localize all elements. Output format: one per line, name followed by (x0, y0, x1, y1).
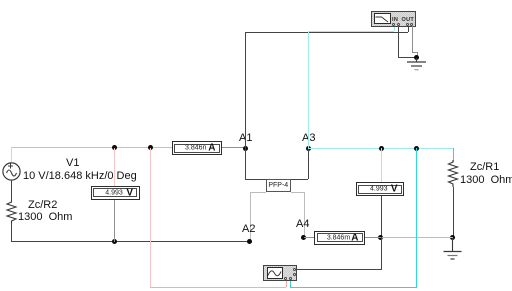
wire: red stub up to FG (286, 281, 287, 287)
label Zc/R2 (28, 199, 57, 211)
wire: cyan down to voltmeter U4 (381, 148, 382, 183)
bode plotter screen (374, 13, 392, 24)
label A2 (242, 223, 255, 235)
label R1 value (460, 174, 512, 186)
junction: R1 ground node (450, 235, 455, 240)
wire: ammeter U1 to node A1 (222, 147, 246, 148)
junction: FG return tap (414, 146, 419, 151)
wire: cyan net A3 to R1 (308, 148, 453, 149)
resistor Zc/R2 (4, 200, 19, 224)
junction: function generator feed tap on top net (148, 145, 153, 150)
wire: top black horizontal to bode plotter OUT (245, 32, 408, 33)
node A1 (243, 146, 248, 151)
FG terminal bottom 2 (289, 277, 292, 280)
voltmeter U2 4.993 V (91, 186, 140, 200)
wire: A1 down to PFP-4 (245, 148, 246, 179)
wire: PFP-4 bottom-left out (250, 192, 266, 193)
terminal IN+ (392, 23, 395, 26)
wire: R1 bottom (453, 187, 454, 238)
label IN OUT (392, 17, 414, 23)
FG terminal bottom 1 (284, 277, 287, 280)
ground GND1 (406, 58, 427, 72)
bode plotter XBP1 (371, 11, 416, 28)
wire: red stub V1 top vertical (11, 147, 12, 162)
node A2 (247, 239, 252, 244)
terminal IN- (397, 23, 400, 26)
wire: down to A4 (304, 192, 305, 238)
terminal OUT- (410, 23, 413, 26)
function generator XFG1 (263, 265, 297, 281)
voltage source V1 (1, 160, 22, 182)
wire: ammeter U3 right (365, 237, 381, 238)
wire: to ground junction (398, 57, 417, 58)
wire: OUT- jog down (417, 52, 418, 58)
ground GND2 (442, 238, 463, 260)
wire: OUT- jog right (412, 52, 418, 53)
wire: voltmeter U4 bottom down (381, 196, 382, 238)
label V1 (66, 157, 79, 169)
junction: ground node (414, 55, 419, 60)
FG screen (267, 267, 284, 279)
label A4 (296, 218, 309, 230)
wire: into PFP-4 left (245, 179, 266, 180)
label A1 (239, 132, 252, 144)
label Zc/R1 (470, 161, 499, 173)
node A3 (306, 146, 311, 151)
wire: down to A2 (250, 192, 251, 242)
junction: voltmeter U2 bottom tap (112, 239, 117, 244)
wire: FG node down (381, 237, 382, 269)
FG sine wave (267, 268, 282, 279)
wire: A1 up (245, 32, 246, 148)
label V1 value (23, 170, 137, 182)
wire: red drop to voltmeter U2 (114, 148, 115, 186)
wire: R2 bottom vertical (11, 223, 12, 242)
node A4 (301, 235, 306, 240)
wire: V1 bottom to resistor R2 (11, 180, 12, 201)
junction: voltmeter U2 tap on top net (112, 145, 117, 150)
wire: FG output horizontal (297, 269, 382, 270)
wire: cyan return bottom horizontal (290, 287, 416, 288)
resistor Zc/R1 (446, 160, 461, 187)
junction: FG output node (378, 235, 383, 240)
wire: stub up to OUT+ terminal (408, 26, 409, 32)
voltmeter U4 4.993 V (356, 182, 405, 196)
wire: A4 to ammeter U3 (304, 237, 315, 238)
FG terminal - (right lower) (293, 273, 296, 276)
wire: cyan down to R1 (453, 148, 454, 162)
label A3 (302, 132, 315, 144)
wire: red net from V1 top, horizontal y=147 (11, 147, 172, 148)
wire: voltmeter U2 bottom to bottom net (114, 200, 115, 242)
wire: stub up to IN+ terminal (394, 26, 395, 31)
wire: cyan horizontal to bode plotter IN (308, 31, 394, 32)
wire: red vertical to function generator (150, 148, 151, 287)
wire: IN- down (398, 26, 399, 58)
wire: A3 up cyan (308, 31, 309, 148)
wire: OUT- down gray (412, 26, 413, 52)
junction: voltmeter U4 tap (379, 146, 384, 151)
wire: cyan return vertical right side (416, 148, 417, 288)
wire: red horizontal to FG + terminal (150, 287, 286, 288)
wire: to R1 ground node (381, 237, 453, 238)
bode plotter response curve (374, 14, 390, 24)
block PFP-4 (266, 179, 292, 193)
wire: A3 down to PFP-4 (308, 148, 309, 179)
wire: cyan stub up to FG (290, 281, 291, 287)
ammeter U1 3.846n A (172, 141, 223, 155)
label R2 value (18, 211, 72, 223)
wire: into PFP-4 right (291, 179, 308, 180)
ammeter U3 3.846m A (314, 231, 365, 245)
terminal OUT+ (406, 23, 409, 26)
wire: bottom-left net horizontal to A2 (11, 241, 250, 242)
FG terminal + (right top) (293, 268, 296, 271)
wire: PFP-4 bottom-right out (291, 192, 304, 193)
